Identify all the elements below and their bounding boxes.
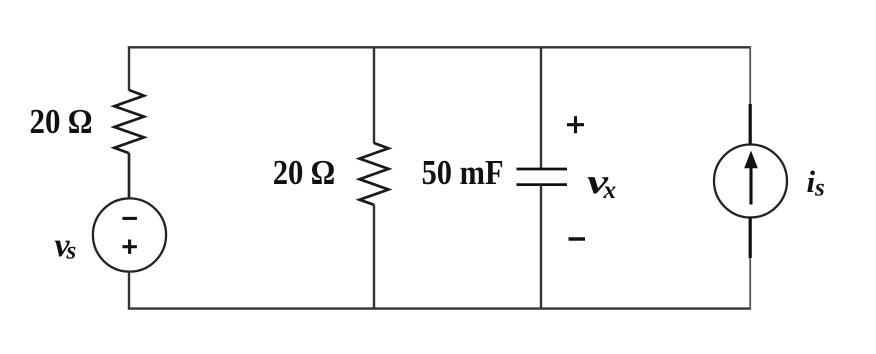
svg-text:50 mF: 50 mF [422, 153, 504, 192]
svg-text:s: s [66, 238, 77, 265]
svg-text:s: s [814, 175, 825, 202]
svg-text:x: x [603, 177, 617, 204]
svg-text:20 Ω: 20 Ω [273, 153, 335, 192]
svg-text:20 Ω: 20 Ω [30, 102, 93, 141]
